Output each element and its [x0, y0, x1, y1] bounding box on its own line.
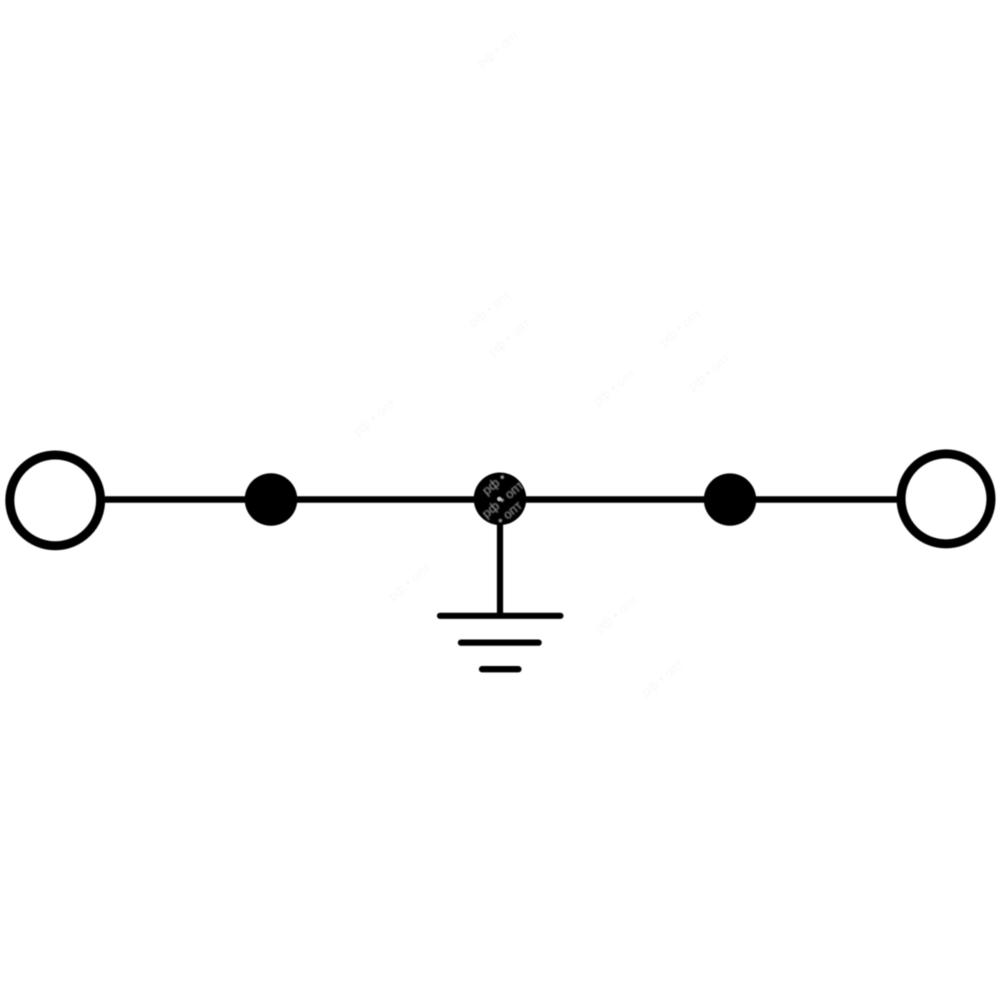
- watermark bullet center: [497, 497, 502, 502]
- watermark text on center dot: [457, 454, 548, 541]
- junction dot right: [704, 473, 756, 525]
- ground: [440, 616, 560, 669]
- faint watermark smudges on background: [350, 27, 733, 700]
- wire ground branch vertical: [497, 499, 503, 616]
- junction dot center: [474, 473, 527, 526]
- terminal circle right: [901, 454, 991, 544]
- wire main horizontal bus: [105, 496, 897, 503]
- junction dot left: [245, 473, 298, 526]
- terminal circle left: [10, 455, 101, 546]
